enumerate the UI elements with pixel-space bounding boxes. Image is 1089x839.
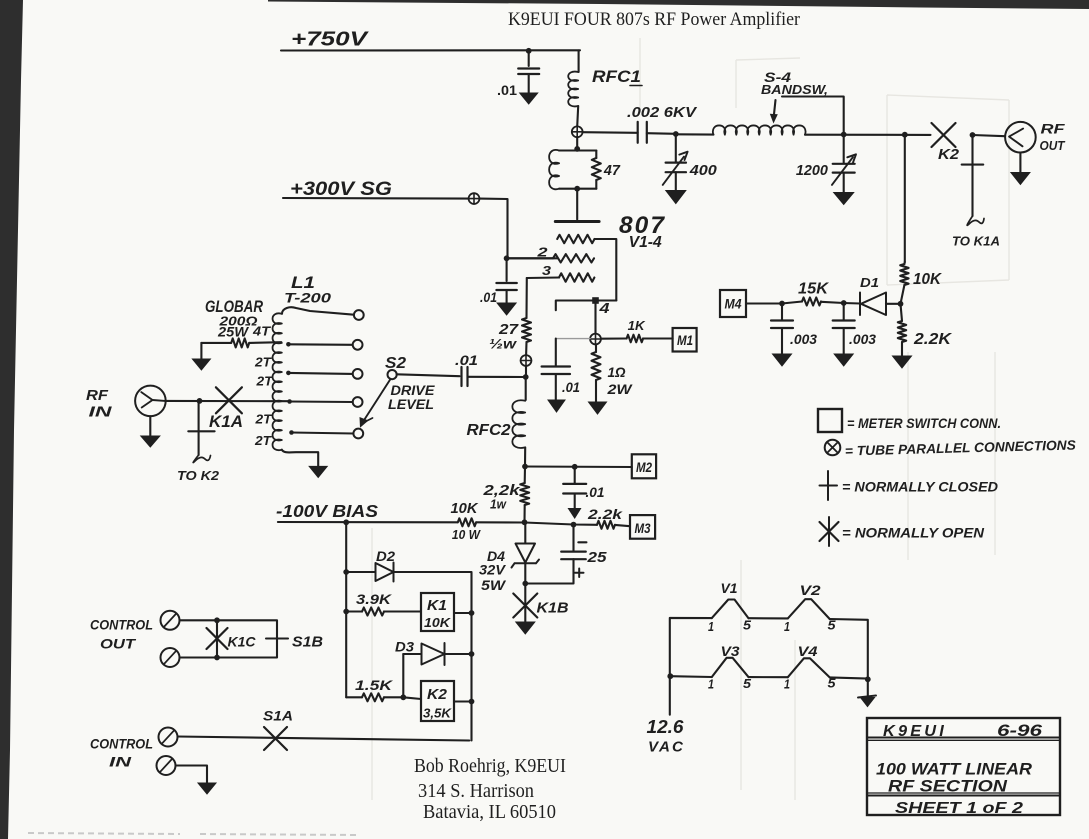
terminal control in upper <box>159 728 178 747</box>
legend meter switch connection symbol <box>818 409 842 432</box>
svg-text:2: 2 <box>536 245 548 260</box>
filament V2 <box>788 599 830 619</box>
svg-text:.003: .003 <box>849 332 876 347</box>
filament V1 <box>712 600 749 619</box>
svg-text:K2: K2 <box>427 687 447 703</box>
svg-text:LEVEL: LEVEL <box>388 397 434 412</box>
svg-text:RFC2: RFC2 <box>467 422 511 439</box>
svg-text:Bob Roehrig, K9EUI: Bob Roehrig, K9EUI <box>414 756 566 777</box>
resistor screen pin 2 <box>507 257 553 259</box>
wire tank input <box>676 133 714 135</box>
svg-text:1: 1 <box>784 678 790 692</box>
legend normally open symbol <box>828 517 830 546</box>
junction .01 on M2 line <box>572 464 578 470</box>
svg-text:2T: 2T <box>254 434 273 448</box>
terminal control in lower <box>157 756 176 775</box>
meter connector M3 <box>630 515 655 539</box>
wire M4 line <box>746 302 782 304</box>
wire to M2 <box>525 465 632 468</box>
svg-text:1200: 1200 <box>796 163 828 179</box>
svg-text:M1: M1 <box>677 333 693 348</box>
wire V1 to V2 <box>749 617 788 619</box>
title block divider upper <box>867 737 1060 739</box>
polarity plus <box>575 569 584 578</box>
filament V4 <box>788 658 830 677</box>
svg-text:RFC1: RFC1 <box>592 67 641 86</box>
svg-text:K1B: K1B <box>537 600 569 617</box>
svg-text:32V: 32V <box>479 563 506 578</box>
svg-text:D3: D3 <box>395 640 415 655</box>
svg-text:CONTROL: CONTROL <box>90 618 153 633</box>
resistor 27 half watt grid <box>525 278 527 318</box>
terminal L1 tap 1 <box>354 310 364 320</box>
capacitor .01 at +750V rail <box>528 51 530 66</box>
junction at 1200pF tap <box>841 132 847 138</box>
svg-text:V2: V2 <box>800 582 821 598</box>
capacitor .01 grid <box>542 367 570 375</box>
resistor 1 ohm 2W cathode <box>595 344 597 352</box>
svg-text:3,5K: 3,5K <box>423 706 453 721</box>
resistor 15K <box>802 298 821 306</box>
inductor L1 input coil <box>282 307 354 314</box>
svg-text:3.9K: 3.9K <box>356 592 393 607</box>
svg-text:RF SECTION: RF SECTION <box>888 778 1008 796</box>
capacitor .01 meter <box>574 467 576 484</box>
svg-text:1: 1 <box>708 620 714 634</box>
ground below grid cap <box>548 400 565 412</box>
connector RF IN <box>135 386 166 417</box>
svg-text:RF: RF <box>86 388 109 404</box>
wire control out loop <box>180 620 278 657</box>
svg-text:= NORMALLY OPEN: = NORMALLY OPEN <box>842 526 984 541</box>
svg-text:4T: 4T <box>252 325 272 339</box>
title block frame <box>867 718 1060 815</box>
ground below 1200 cap <box>834 193 854 205</box>
svg-text:1: 1 <box>708 678 714 692</box>
svg-text:D2: D2 <box>376 549 396 564</box>
squiggle TO K1A <box>967 216 984 225</box>
band switch tap arrow <box>774 100 776 119</box>
ground below RF OUT <box>1019 153 1021 173</box>
svg-text:314 S. Harrison: 314 S. Harrison <box>418 781 534 802</box>
capacitor .002 6KV blocking <box>638 122 647 143</box>
ground control in <box>198 783 216 794</box>
capacitor .01 coupling <box>462 367 468 386</box>
svg-text:TO K1A: TO K1A <box>952 234 1000 249</box>
junction filament right <box>865 676 871 682</box>
svg-text:.003: .003 <box>790 332 817 347</box>
diode D3 <box>422 643 445 665</box>
svg-text:3: 3 <box>542 263 552 278</box>
wire 1K to M1 <box>643 337 673 339</box>
svg-text:4: 4 <box>598 300 610 317</box>
svg-text:400: 400 <box>689 162 718 179</box>
svg-text:M2: M2 <box>636 459 652 475</box>
inductor RFC1 <box>578 50 580 72</box>
svg-text:V1: V1 <box>721 580 738 596</box>
wire control in to relay rail <box>178 737 470 741</box>
junction at RF OUT <box>970 132 976 138</box>
resistor screen pin 3 <box>527 276 559 279</box>
wire coupling cap to grid node <box>468 376 526 378</box>
wire V2 to right rail <box>830 619 868 679</box>
svg-text:+750V: +750V <box>291 29 369 51</box>
resistor 2.2K divider lower <box>901 304 903 321</box>
svg-text:10 W: 10 W <box>452 527 482 542</box>
resistor 3.9K <box>346 610 362 612</box>
wire down to meter divider <box>904 135 906 262</box>
junction SG dropping point <box>504 255 510 261</box>
junction control out lower <box>214 655 220 661</box>
wire band switch to tank output <box>782 97 844 135</box>
wire plate node to blocking cap <box>583 131 638 134</box>
svg-text:.01: .01 <box>480 290 497 305</box>
wire 1.5K to K2 box <box>403 697 421 699</box>
polarity minus <box>578 541 586 543</box>
svg-text:10K: 10K <box>913 271 943 288</box>
svg-text:S1A: S1A <box>263 709 293 724</box>
wire RF IN to coil <box>166 400 290 402</box>
junction on +750V rail <box>526 48 532 54</box>
svg-text:.01: .01 <box>455 353 478 368</box>
wire cathode to 1K <box>601 337 627 339</box>
capacitor .003 first <box>781 304 783 321</box>
wire +300V SG rail <box>283 197 469 200</box>
svg-text:VAC: VAC <box>648 740 685 756</box>
ground below .01 cap <box>520 93 538 104</box>
svg-text:M3: M3 <box>635 520 651 536</box>
junction at 400pF tap <box>673 131 679 137</box>
svg-text:2T: 2T <box>254 413 273 427</box>
wire D1 to divider node <box>886 303 900 305</box>
relay contact K1C normally open <box>207 628 228 649</box>
terminal control out lower <box>161 648 180 667</box>
diode D2 <box>376 563 394 582</box>
svg-text:V1-4: V1-4 <box>629 234 662 251</box>
junction 25uF takeoff <box>571 522 577 528</box>
svg-text:CONTROL: CONTROL <box>90 737 153 752</box>
wire 10K to bias junction <box>476 521 524 523</box>
ground for GLOBAR <box>200 343 202 359</box>
svg-text:TO K2: TO K2 <box>177 468 220 483</box>
svg-text:S2: S2 <box>385 355 406 372</box>
filament V3 <box>712 658 749 677</box>
svg-text:½w: ½w <box>489 337 518 352</box>
ground below 400 cap <box>666 191 686 204</box>
capacitor 25uF electrolytic <box>572 525 574 552</box>
svg-text:1w: 1w <box>490 498 507 512</box>
wire D2 branch <box>346 571 375 573</box>
svg-text:K1A: K1A <box>209 413 243 431</box>
svg-text:10K: 10K <box>424 615 452 630</box>
stub to K1A normally closed contact <box>971 135 973 216</box>
resistor 1.5K <box>346 696 362 698</box>
svg-text:5: 5 <box>828 619 837 633</box>
wire 15K to D1 node <box>821 302 844 303</box>
switch S1B normally closed tick <box>266 637 288 639</box>
wire bias to M3 chain <box>525 523 598 525</box>
junction below zener <box>522 581 528 587</box>
svg-text:OUT: OUT <box>100 637 137 652</box>
svg-text:K9EUI: K9EUI <box>883 723 947 740</box>
junction first .003 <box>779 301 785 307</box>
wire cap to tank <box>647 132 676 135</box>
junction RF IN branch <box>197 398 203 404</box>
wire SG to screen resistors <box>479 199 557 259</box>
svg-text:2.2k: 2.2k <box>587 506 624 522</box>
svg-text:1: 1 <box>784 620 790 634</box>
wire to RF OUT <box>973 135 1005 136</box>
svg-text:K1: K1 <box>427 598 447 614</box>
svg-text:DRIVE: DRIVE <box>391 383 436 398</box>
svg-text:5W: 5W <box>481 578 506 593</box>
junction tank output <box>902 132 908 138</box>
svg-text:6-96: 6-96 <box>997 722 1043 740</box>
resistor 10K divider upper <box>903 262 905 264</box>
wire D3 to 1.5K joint <box>402 654 404 697</box>
wire top resistor to pin4 rail <box>595 239 617 301</box>
junction pin 4 <box>592 297 599 304</box>
ground below 2.2K divider <box>893 356 912 368</box>
variable capacitor 400 <box>675 134 677 162</box>
svg-text:K1C: K1C <box>228 634 257 650</box>
terminal L1 tap 4 <box>290 400 353 403</box>
wire to 15K <box>782 302 802 304</box>
node tube-parallel connection at plate <box>572 126 583 137</box>
svg-text:2T: 2T <box>255 375 274 389</box>
svg-text:2W: 2W <box>606 381 633 397</box>
legend normally closed symbol <box>820 471 838 500</box>
ground first .003 <box>773 354 792 366</box>
ground below L1 <box>309 466 327 477</box>
wire to M3 box <box>615 525 630 526</box>
svg-text:Batavia, IL 60510: Batavia, IL 60510 <box>423 802 556 823</box>
wire V4 to right rail <box>830 677 868 678</box>
junction M2 takeoff <box>522 464 528 470</box>
connector RF OUT <box>1005 122 1036 153</box>
svg-text:IN: IN <box>109 754 132 770</box>
junction plate node to suppressor <box>576 137 578 150</box>
node tube-parallel connection grid <box>521 355 532 366</box>
inductor tank coil <box>713 125 806 134</box>
capacitor .003 second <box>843 303 845 320</box>
variable capacitor 1200 <box>843 135 845 164</box>
wire +750V rail <box>281 49 580 51</box>
wire cathode to grid bypass cap <box>557 338 590 340</box>
svg-text:1Ω: 1Ω <box>608 364 626 380</box>
svg-text:K9EUI FOUR 807s RF Power Ampli: K9EUI FOUR 807s RF Power Amplifier <box>508 9 801 30</box>
svg-text:OUT: OUT <box>1040 139 1066 153</box>
junction divider node <box>898 301 904 307</box>
relay contact K2 normally open <box>932 123 956 147</box>
resistor 1K meter shunt <box>627 335 644 343</box>
svg-text:2T: 2T <box>254 356 273 370</box>
svg-text:25W: 25W <box>217 324 250 340</box>
node tube-parallel connection on SG rail <box>469 193 480 204</box>
svg-text:.01: .01 <box>586 485 605 500</box>
svg-text:15K: 15K <box>798 281 830 298</box>
wire S2 to coupling cap <box>397 374 460 376</box>
meter connector M1 <box>673 328 697 352</box>
wire filament second row <box>670 675 712 678</box>
junction control out upper <box>214 617 220 623</box>
wire K1 to right rail <box>454 612 472 614</box>
relay coil K2 box <box>421 681 454 721</box>
terminal L1 tap 5 <box>292 433 354 434</box>
ground second .003 <box>834 354 853 366</box>
svg-text:.01: .01 <box>497 82 517 98</box>
svg-text:25: 25 <box>586 549 607 566</box>
svg-text:= METER SWITCH CONN.: = METER SWITCH CONN. <box>847 415 1001 431</box>
svg-text:5: 5 <box>743 677 752 691</box>
terminal L1 tap 3 <box>288 373 352 374</box>
svg-text:12.6: 12.6 <box>647 716 685 737</box>
stub to K2 normally closed contact <box>198 401 200 455</box>
svg-text:-100V BIAS: -100V BIAS <box>276 501 378 521</box>
svg-text:K2: K2 <box>938 147 959 163</box>
svg-text:V3: V3 <box>721 643 740 659</box>
svg-text:1.5K: 1.5K <box>355 678 394 693</box>
tube plate bar <box>555 220 599 223</box>
svg-text:M4: M4 <box>725 297 742 312</box>
svg-text:IN: IN <box>89 405 113 421</box>
svg-text:10K: 10K <box>451 501 480 517</box>
legend tube parallel connection symbol <box>825 440 841 456</box>
diode D4 zener 32V 5W <box>524 523 526 544</box>
junction second .003 <box>841 300 847 306</box>
wire to D1 <box>844 302 860 305</box>
resistor 2.2K to M3 <box>597 521 615 529</box>
ground below cathode resistor <box>589 402 607 414</box>
svg-text:RF: RF <box>1041 122 1066 137</box>
ground below RF IN <box>149 416 151 436</box>
terminal L1 tap 2 <box>288 343 352 346</box>
wire K2 to right rail <box>454 700 472 702</box>
junction filament left <box>667 673 673 679</box>
svg-text:2.2K: 2.2K <box>913 331 953 348</box>
ground below screen bypass cap <box>497 303 516 315</box>
svg-text:47: 47 <box>603 163 621 179</box>
wire relay network left rail <box>345 522 347 697</box>
wire -100V bias rail <box>278 521 458 523</box>
meter connector M2 <box>632 454 656 478</box>
wire pin 4 line <box>556 301 617 311</box>
diode D1 <box>859 293 861 316</box>
squiggle TO K2 <box>193 455 210 463</box>
svg-text:.002 6KV: .002 6KV <box>627 104 698 121</box>
svg-text:D1: D1 <box>860 275 879 290</box>
svg-text:= NORMALLY CLOSED: = NORMALLY CLOSED <box>842 480 998 495</box>
svg-text:SHEET 1 oF 2: SHEET 1 oF 2 <box>895 800 1023 817</box>
svg-text:1K: 1K <box>628 319 646 333</box>
resistor 2.2K 1w <box>524 467 526 484</box>
svg-text:5: 5 <box>828 677 837 691</box>
ground below K1B <box>516 622 535 634</box>
junction drive line <box>525 366 527 377</box>
meter connector M4 <box>720 290 746 317</box>
title block divider lower <box>867 795 1060 797</box>
ground filament <box>867 679 869 697</box>
svg-text:.01: .01 <box>562 380 580 395</box>
node tube-parallel connection cathode <box>590 334 601 345</box>
wire D2 to right rail <box>394 572 472 741</box>
wire tank coil to K2 <box>805 134 931 136</box>
relay contact K1A normally open <box>216 387 242 413</box>
terminal control out upper <box>161 611 180 630</box>
junction bias node <box>522 519 528 525</box>
relay contact K1B normally open <box>524 584 526 623</box>
inductor RFC2 <box>525 377 527 400</box>
svg-text:+300V SG: +300V SG <box>290 178 392 200</box>
resistor grid stopper top <box>557 235 594 243</box>
junction suppressor to plate lead <box>574 186 580 192</box>
svg-text:V4: V4 <box>798 643 818 659</box>
svg-text:5: 5 <box>743 619 752 633</box>
wire lower terminal to ground <box>176 766 208 784</box>
wire filament left rail <box>670 618 712 715</box>
svg-text:S1B: S1B <box>292 634 323 651</box>
relay coil K1 box <box>421 593 454 631</box>
svg-text:BANDSW,: BANDSW, <box>761 82 828 97</box>
suppressor network coil and 47 ohm resistor <box>559 151 596 189</box>
wire V3 to V4 <box>749 676 788 678</box>
svg-text:100 WATT LINEAR: 100 WATT LINEAR <box>876 761 1032 779</box>
switch S2 drive level <box>388 370 397 379</box>
wire pin4 to cathode node <box>594 301 596 334</box>
wire D3 branch <box>403 653 471 655</box>
resistor 10K 10W <box>458 518 476 526</box>
switch S1A normally open <box>264 727 287 750</box>
capacitor .01 screen bypass <box>506 258 508 281</box>
svg-text:GLOBAR: GLOBAR <box>205 298 263 316</box>
svg-text:T-200: T-200 <box>284 290 331 306</box>
resistor GLOBAR 200 ohm 25W <box>201 342 231 344</box>
